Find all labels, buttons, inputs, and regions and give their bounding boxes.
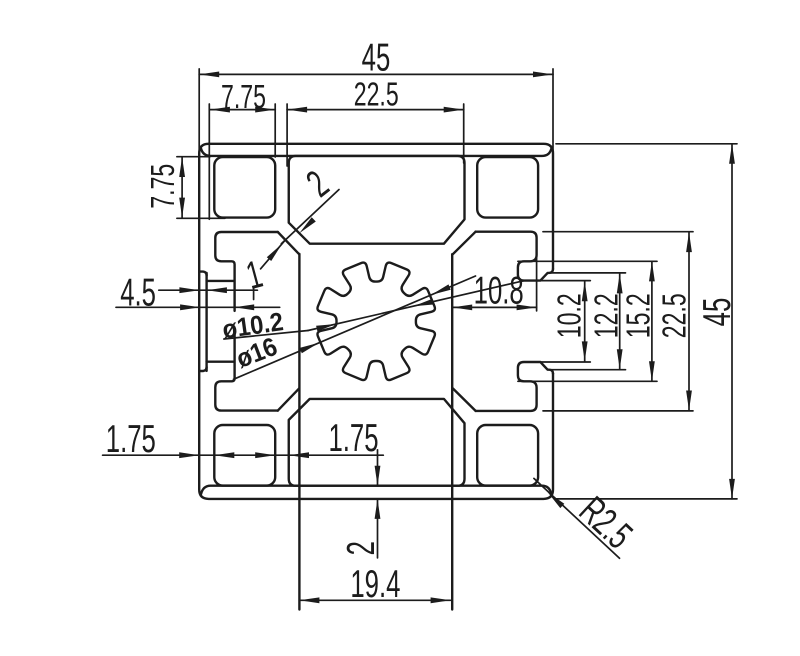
dim 22.5 top line: [287, 109, 464, 111]
svg-text:45: 45: [362, 36, 391, 80]
dim 7.75 left extension bottom: [177, 217, 225, 219]
dim 22.5 top extension left: [286, 104, 288, 166]
svg-text:2: 2: [340, 541, 384, 555]
svg-text:1.75: 1.75: [328, 417, 378, 461]
dim 45 right extension bottom: [556, 498, 737, 500]
svg-text:7.75: 7.75: [221, 79, 266, 116]
svg-text:1.75: 1.75: [106, 418, 156, 462]
ext 15.2 bottom: [518, 380, 657, 382]
svg-text:45: 45: [696, 298, 740, 327]
dim 10.8 line: [452, 306, 536, 308]
dim 45 right line: [731, 144, 733, 499]
svg-text:10.8: 10.8: [474, 269, 524, 313]
web chamfer lower-left: [278, 389, 299, 411]
dim 4.5 line: [116, 306, 280, 308]
svg-text:4.5: 4.5: [120, 271, 156, 315]
left lip chamfer stub upper: [199, 272, 206, 276]
ext 12.2 bottom: [550, 369, 625, 371]
label 1 arrow: [261, 241, 285, 269]
dim 1.75 line: [103, 454, 384, 456]
corner hole bottom-right: [477, 425, 538, 486]
svg-text:15.2: 15.2: [620, 293, 657, 338]
profile outer boundary: [209, 144, 553, 269]
dim 19.4 line: [299, 599, 450, 601]
gear boss right wall (slot back wall) / 19.4 extension: [451, 254, 453, 609]
left mouth upper ledge: [207, 280, 234, 282]
gear boss left wall / 19.4 extension: [298, 254, 300, 610]
dim 10.8 extension: [536, 255, 538, 311]
leader dia10.2 line: [308, 281, 524, 331]
corner hole top-left: [214, 157, 275, 218]
left lip chamfer stub lower: [199, 367, 206, 371]
dim 22.5 right line: [688, 232, 690, 410]
dim 1 line: [159, 289, 258, 291]
web chamfer upper-right: [453, 232, 476, 255]
label 1 leader: [253, 288, 255, 300]
bottom wall inner surface: [201, 486, 551, 495]
dim 10.2 right line: [584, 281, 586, 361]
leader R2.5 line: [534, 478, 620, 558]
web chamfer lower-right: [453, 388, 476, 411]
dim 45 right extension top: [556, 143, 737, 145]
ext 22.5 top: [543, 231, 693, 233]
bottom center cavity: [289, 399, 465, 486]
label 2 leader: [281, 190, 339, 244]
dim 2 bottom line upper: [377, 450, 379, 486]
ext 22.5 bottom: [543, 410, 693, 412]
dim 15.2 right line: [651, 261, 653, 381]
dim 45 top extension right: [552, 69, 554, 150]
ext 15.2 top: [518, 260, 657, 262]
ext 12.2 top: [550, 272, 625, 274]
dim 22.5 top extension right: [463, 104, 465, 163]
left slot upper jaw: [215, 232, 277, 311]
dim 2 bottom line lower: [377, 499, 379, 558]
leader dia10.2 tail: [224, 331, 308, 340]
svg-text:10.2: 10.2: [552, 293, 589, 338]
left slot lower jaw: [215, 332, 277, 411]
dim 12.2 right line: [619, 273, 621, 369]
left mouth lower ledge: [207, 361, 234, 363]
top wall inner surface: [201, 149, 551, 156]
dim 7.75 top extension right: [274, 104, 276, 157]
leader dia16 line: [234, 276, 476, 379]
dim 7.75 left line: [181, 157, 183, 218]
corner hole top-right: [477, 157, 538, 218]
dim 7.75 top extension left: [208, 104, 210, 219]
dim 45 top line: [199, 73, 553, 75]
dim 45 top extension left: [198, 69, 200, 150]
ext 10.2 bottom: [540, 361, 590, 363]
web chamfer upper-left: [278, 232, 299, 254]
center gear spline hole: [317, 263, 434, 380]
right slot upper jaw: [476, 232, 553, 281]
top center cavity: [289, 156, 465, 244]
ext 10.2 top: [540, 280, 590, 282]
svg-text:19.4: 19.4: [350, 563, 400, 607]
left closed mouth inner face: [205, 273, 207, 371]
corner hole bottom-left: [214, 425, 275, 486]
svg-text:22.5: 22.5: [354, 76, 399, 113]
svg-text:22.5: 22.5: [656, 293, 693, 338]
dim 7.75 top line: [210, 109, 275, 111]
svg-text:7.75: 7.75: [145, 164, 182, 209]
dim 7.75 left extension top: [177, 156, 210, 158]
right slot lower jaw: [476, 362, 553, 411]
